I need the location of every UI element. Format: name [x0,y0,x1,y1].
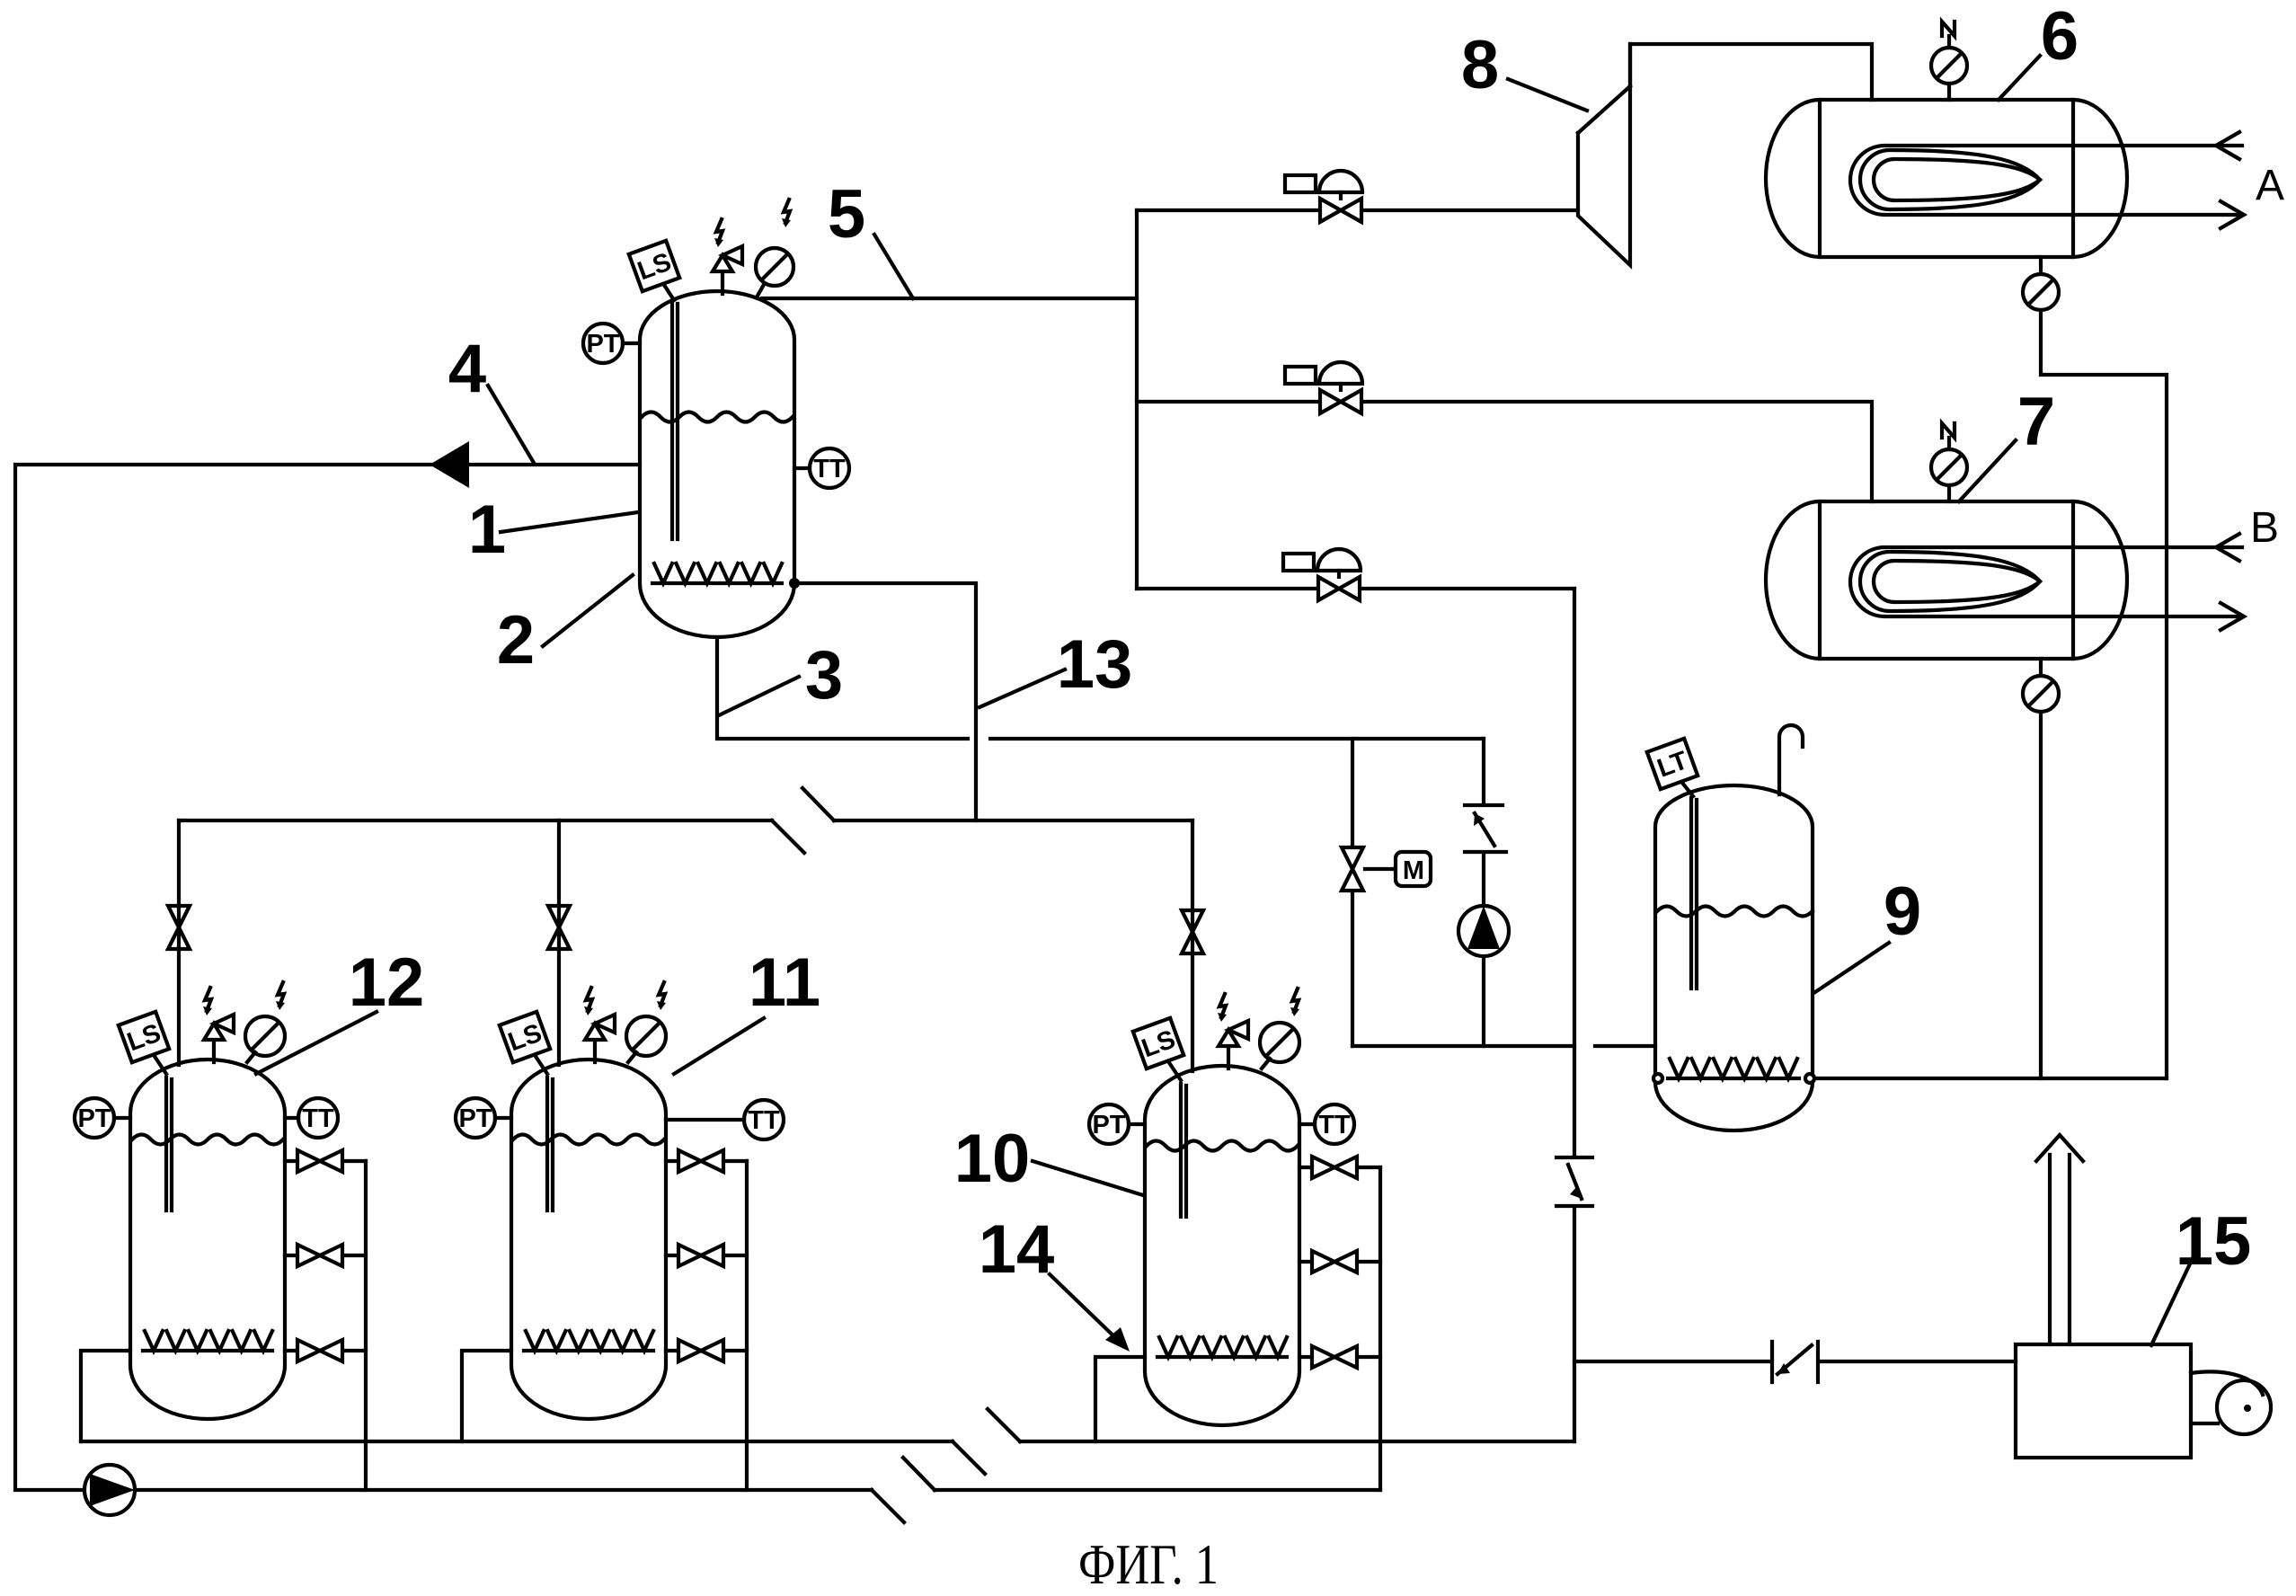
svg-text:15: 15 [2176,1203,2252,1280]
svg-text:M: M [1403,856,1424,885]
svg-text:10: 10 [954,1121,1031,1197]
svg-text:ФИГ. 1: ФИГ. 1 [1078,1532,1219,1596]
svg-text:TT: TT [813,455,846,483]
svg-text:14: 14 [979,1211,1055,1288]
svg-text:PT: PT [586,330,619,359]
svg-text:8: 8 [1461,27,1499,103]
svg-text:6: 6 [2041,0,2079,75]
svg-text:TT: TT [1318,1111,1351,1139]
svg-text:А: А [2256,162,2284,209]
svg-text:5: 5 [828,176,865,253]
svg-text:TT: TT [302,1104,334,1133]
svg-text:11: 11 [749,944,820,1021]
svg-text:LT: LT [1653,746,1691,784]
svg-text:7: 7 [2017,384,2055,460]
svg-text:9: 9 [1884,873,1921,950]
svg-text:4: 4 [448,331,486,407]
svg-text:1: 1 [468,492,506,568]
svg-text:В: В [2250,504,2279,552]
svg-text:TT: TT [748,1106,780,1135]
svg-text:3: 3 [805,637,843,714]
svg-text:2: 2 [497,602,535,678]
svg-text:12: 12 [349,944,425,1021]
svg-text:13: 13 [1057,626,1133,703]
